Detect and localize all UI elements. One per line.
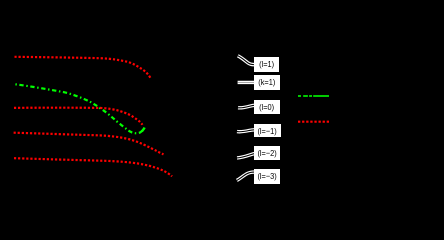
- leader arrow to (l=-3): [237, 172, 255, 180]
- legend red dotted sample: [298, 121, 330, 123]
- legend green dash-dot sample: [298, 95, 329, 97]
- leader arrow to (k=1): [238, 81, 255, 84]
- curve R1 top red dotted: [15, 57, 151, 78]
- leader arrow to (l=-2): [237, 154, 255, 158]
- label box (l=-2): [254, 146, 280, 160]
- curve R3 red dotted: [14, 133, 164, 155]
- curve R4 red dotted: [14, 158, 172, 176]
- label box (l=1): [254, 57, 279, 72]
- green hook tip blob: [142, 128, 145, 132]
- leader arrow to (l=-1): [237, 130, 254, 132]
- label box (l=0): [254, 100, 280, 114]
- label box (l=-3): [254, 169, 280, 184]
- label box (l=-1): [254, 124, 281, 137]
- leader arrow to (l=0): [238, 105, 254, 108]
- label box (k=1): [254, 75, 280, 90]
- curve G green dash-dot: [15, 84, 144, 133]
- curve R2 red dotted: [14, 108, 142, 125]
- leader arrow to (l=1): [238, 56, 255, 65]
